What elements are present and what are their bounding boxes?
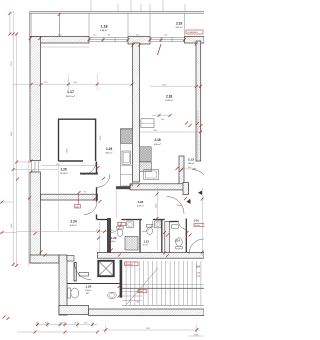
counter right top <box>141 119 154 128</box>
svg-text:3.5 m²: 3.5 m² <box>111 240 117 243</box>
closet room 1.19 walls <box>59 119 96 161</box>
svg-text:2.16: 2.16 <box>155 138 161 142</box>
svg-text:10.10 m²: 10.10 m² <box>60 172 68 175</box>
room labels <box>60 22 200 296</box>
dim line y=168.9 right <box>182 168 197 170</box>
wall top pier <box>128 37 150 45</box>
door arc wc 2.14 <box>178 221 187 230</box>
svg-text:1.18: 1.18 <box>101 25 108 29</box>
svg-text:1.22: 1.22 <box>111 236 117 240</box>
door arc hall east <box>97 174 110 187</box>
dim vertical right edge <box>201 188 203 256</box>
svg-text:2.14: 2.14 <box>175 240 180 243</box>
bottom dim line 3 long <box>102 329 200 331</box>
window top 2 <box>150 38 185 42</box>
door arc entrance <box>75 263 92 280</box>
svg-text:3.61 m²: 3.61 m² <box>176 26 183 29</box>
svg-text:1.21: 1.21 <box>144 240 150 244</box>
inner face line below top wall <box>41 46 89 48</box>
dim line y=115.4 <box>152 114 170 116</box>
red dimension ticks <box>1 12 204 334</box>
wall wc 2.14 left hatched <box>165 222 170 253</box>
witness line x=116.2 <box>115 189 117 218</box>
left edge leader lines <box>0 201 13 203</box>
witness line x=99.8 <box>99 222 101 252</box>
dim line y=132 <box>140 131 204 133</box>
wall interior stub right <box>179 156 184 184</box>
sink wc 2.14 <box>172 225 179 228</box>
dim line y=84 <box>13 83 132 85</box>
vestibule entrance door leaf <box>74 263 76 282</box>
wall vestibule top segments <box>67 256 74 262</box>
svg-text:3.1 m²: 3.1 m² <box>143 244 149 247</box>
svg-text:2.24: 2.24 <box>71 220 77 224</box>
svg-text:2.19: 2.19 <box>176 22 182 26</box>
svg-text:1200.35: 1200.35 <box>125 264 133 266</box>
black triangle markers <box>198 191 202 195</box>
stove crosshatch <box>121 129 133 144</box>
shower 1.22 <box>125 237 138 251</box>
bottom dim line 2 <box>17 331 98 333</box>
dim lines hall left <box>17 161 30 163</box>
wall left upper <box>30 37 41 161</box>
svg-text:9.41 m²: 9.41 m² <box>166 99 174 102</box>
svg-text:1.19: 1.19 <box>106 147 112 151</box>
svg-text:2.13: 2.13 <box>188 158 194 162</box>
rotated dims <box>11 61 158 228</box>
dimension line left x=13.2 <box>12 11 14 266</box>
red witness line hall <box>77 195 79 206</box>
wall bottom band right segment <box>89 309 205 316</box>
dim line y=165.5 <box>41 165 96 167</box>
toilet 1.25 <box>68 288 71 298</box>
svg-text:12A: 12A <box>75 206 79 209</box>
wall top-left band <box>30 37 89 44</box>
wall hall horizontal <box>41 194 98 200</box>
svg-text:36.10 m²: 36.10 m² <box>66 95 75 98</box>
kitchen sink <box>122 151 131 164</box>
wall left lower <box>30 172 41 263</box>
wall corner stub down <box>183 183 189 195</box>
sink 1.25 <box>108 292 117 298</box>
door leaf room 1.25 <box>79 273 89 277</box>
axis dashes above top wall <box>91 0 185 12</box>
wall bottom-left band <box>30 255 59 263</box>
window left wall <box>32 161 39 173</box>
svg-text:1.20: 1.20 <box>61 168 67 172</box>
svg-text:2.18: 2.18 <box>166 95 172 99</box>
wall bottom band left segment <box>59 306 89 315</box>
svg-text:2-01a: 2-01a <box>195 225 201 227</box>
wall stair block left <box>59 255 67 315</box>
door arc right wall terrace <box>192 170 204 175</box>
witness line x=28.6 <box>28 160 30 266</box>
top terrace thin wall <box>30 12 205 37</box>
washbasin 1.21 <box>155 221 162 228</box>
bottom dim line 1 <box>35 324 98 326</box>
svg-text:1.34 m²: 1.34 m² <box>85 289 92 292</box>
wall dark bar kitchen bottom <box>116 186 131 189</box>
dim line y=86 right <box>150 85 201 87</box>
dim line y=231.3 <box>17 230 107 232</box>
small rooms row partitions <box>97 219 187 253</box>
svg-text:CLEANING: CLEANING <box>187 31 198 34</box>
elevator shaft <box>98 261 113 276</box>
stairs bottom edge <box>122 305 204 307</box>
toilet wc 2.14 <box>176 238 182 246</box>
stairs landing rail <box>122 287 204 289</box>
svg-text:3.4: 3.4 <box>196 265 200 269</box>
door arc room 1.21 <box>142 221 153 232</box>
dimension line left x=16.6 <box>16 33 18 266</box>
svg-text:1.23: 1.23 <box>138 200 144 204</box>
svg-text:6.63 m²: 6.63 m² <box>70 224 77 227</box>
dimension line left x=9.9 <box>9 11 11 35</box>
wall stub 1.25/stairs <box>120 260 123 298</box>
window top 1 <box>89 38 128 42</box>
counter right bottom <box>144 169 159 179</box>
wall corridor bottom <box>97 252 204 258</box>
svg-text:1.25: 1.25 <box>86 285 92 289</box>
door arc corridor right edge <box>189 239 204 254</box>
stairs walk line diagonal <box>127 268 158 304</box>
bottom dim line 4 <box>188 335 204 337</box>
toilet 1.21 <box>147 224 153 227</box>
dimension numbers <box>36 34 199 336</box>
svg-text:4.63 m²: 4.63 m² <box>106 152 113 155</box>
svg-text:1.17: 1.17 <box>67 90 74 94</box>
wall horizontal mid-right <box>130 184 189 190</box>
wall top-right band <box>185 37 205 44</box>
red label boxes <box>75 30 205 293</box>
hall wall vertical x=96.3 <box>96 162 98 175</box>
dim vertical x=157.2 <box>156 188 158 250</box>
door arc room 1.22 <box>110 222 121 233</box>
stairs treads <box>126 261 201 305</box>
door arc closet <box>83 162 96 175</box>
door arc hall south <box>84 202 97 215</box>
wall stub left of 1.22 <box>107 218 111 253</box>
wall kitchen vertical <box>133 43 140 182</box>
kitchen counter left <box>121 129 133 187</box>
svg-text:1.46 m²: 1.46 m² <box>188 162 195 165</box>
svg-text:5.60 m²: 5.60 m² <box>137 205 144 208</box>
svg-text:9.28 m²: 9.28 m² <box>100 29 108 32</box>
stairs winder treads <box>122 292 142 301</box>
svg-text:2-01: 2-01 <box>194 220 199 223</box>
svg-text:1505: 1505 <box>194 334 200 336</box>
room 1.25 top wall <box>67 283 120 285</box>
washbasin 1.22 <box>127 221 134 228</box>
crosshatch square right <box>139 147 151 162</box>
svg-text:6.36 m²: 6.36 m² <box>154 143 161 146</box>
wall right exterior <box>196 41 201 161</box>
door arc corridor big <box>167 197 184 214</box>
toilet 1.22 <box>117 226 123 229</box>
